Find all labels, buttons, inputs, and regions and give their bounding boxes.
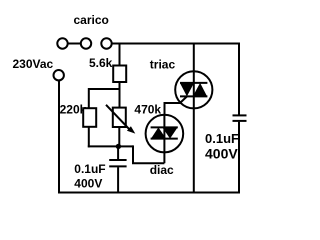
wire 220k top lead <box>88 88 90 108</box>
wire 5.6k top lead <box>119 44 121 66</box>
wire C1 bottom lead <box>117 167 119 192</box>
svg-text:5.6k: 5.6k <box>89 56 113 70</box>
wire C1 top lead <box>117 146 119 159</box>
wire 5.6k bottom lead down to pot <box>119 82 121 108</box>
triac left triangle (down) <box>180 83 194 97</box>
triac main vertical wire <box>193 44 195 193</box>
node junction dot <box>116 144 121 149</box>
svg-text:400V: 400V <box>74 177 102 191</box>
wire right vertical upper <box>238 43 240 115</box>
diac top bar <box>151 126 178 128</box>
wire diac link horizontal <box>132 162 164 164</box>
diac internal vertical <box>163 115 165 153</box>
triac T1 body <box>175 71 212 108</box>
wire left vertical (from 230Vac terminal) <box>58 80 60 193</box>
wire top horizontal <box>112 43 240 45</box>
svg-text:230Vac: 230Vac <box>13 57 54 71</box>
wire bottom horizontal (220k to node) <box>88 145 119 147</box>
wire diac link vertical <box>132 145 134 163</box>
diac D1 body <box>146 115 184 153</box>
triac gate wire <box>165 96 188 115</box>
potentiometer 470k body <box>113 108 126 127</box>
triac right triangle (up) <box>193 83 207 97</box>
wire 220k bottom lead <box>88 127 90 148</box>
wire diac bottom lead <box>163 151 165 163</box>
capacitor C1 plates (0.1uF 400V left) <box>109 159 126 161</box>
capacitor C2 plates (0.1uF 400V right) <box>233 114 247 116</box>
resistor 5.6k <box>113 66 126 83</box>
terminal circle 4 (230Vac) <box>54 70 64 80</box>
wire pot bottom lead <box>118 127 120 147</box>
svg-text:0.1uF: 0.1uF <box>205 131 239 146</box>
terminal circle 3 (mains top) <box>101 38 111 48</box>
wire horizontal to 220k branch <box>89 88 120 90</box>
svg-text:carico: carico <box>74 13 109 27</box>
svg-text:triac: triac <box>150 58 176 72</box>
diac left triangle (up) <box>151 127 166 138</box>
terminal circle 2 (carico right) <box>81 38 91 48</box>
wire node to diac (horizontal) <box>118 145 133 147</box>
svg-text:470k: 470k <box>134 103 161 117</box>
potentiometer arrow <box>106 105 131 131</box>
triac bottom bar <box>180 95 207 97</box>
wire between terminal 1 and terminal 2 <box>68 43 81 45</box>
resistor 220k <box>83 108 96 127</box>
wire right vertical lower <box>238 122 240 194</box>
diac bottom bar <box>151 138 178 140</box>
wire bottom bus <box>58 192 240 194</box>
diac right triangle (down) <box>162 127 177 138</box>
terminal circle 1 (carico left) <box>57 38 67 48</box>
svg-text:diac: diac <box>150 163 174 177</box>
triac top bar <box>180 82 207 84</box>
triac internal vertical <box>193 71 195 108</box>
svg-text:0.1uF: 0.1uF <box>74 162 105 176</box>
svg-text:400V: 400V <box>205 146 238 162</box>
